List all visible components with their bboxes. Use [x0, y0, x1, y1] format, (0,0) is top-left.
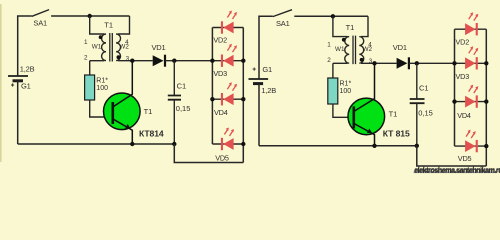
- LED VD2: [221, 11, 237, 34]
- wire rung VD3 (right): [455, 62, 487, 64]
- node: emitter junction: [130, 142, 134, 146]
- LED ladder left rail (right): [454, 29, 456, 146]
- LED VD3 (right): [465, 46, 478, 69]
- node: collector junction (right): [372, 61, 376, 65]
- node: VD4 rung right (right): [484, 99, 488, 103]
- LED ladder right rail: [242, 28, 244, 163]
- svg-text:G1: G1: [21, 82, 31, 91]
- LED VD4: [221, 82, 237, 105]
- svg-text:G1: G1: [262, 65, 272, 74]
- svg-text:T1: T1: [389, 109, 398, 118]
- transformer T1 polarity dot W2: [117, 55, 121, 59]
- svg-text:SA1: SA1: [276, 19, 290, 28]
- LED VD3: [221, 44, 237, 67]
- switch SA1 blade: [32, 10, 49, 17]
- LED VD5: [221, 128, 234, 151]
- transformer T1 core: [110, 33, 113, 62]
- svg-text:VD4: VD4: [214, 108, 228, 117]
- LED ladder right rail (right): [485, 29, 487, 166]
- transistor T1 collector: [114, 61, 133, 107]
- node: C1 top: [172, 59, 176, 63]
- LED ladder left rail: [211, 28, 213, 145]
- battery G1 short plate: [13, 79, 24, 82]
- wire: top rail after switch: [51, 15, 129, 17]
- node: C1 top (right): [415, 61, 419, 65]
- wire rung VD3: [212, 60, 243, 62]
- svg-text:100: 100: [96, 85, 108, 92]
- node: VD4 rung left (right): [452, 99, 456, 103]
- node: VD5 rung right (right): [484, 144, 488, 148]
- wire: pin2 to R1: [89, 61, 91, 75]
- svg-text:R1*: R1*: [340, 81, 352, 88]
- transformer T1 pin2 wire (right): [333, 62, 348, 64]
- transformer T1 pin1 wire: [90, 16, 105, 34]
- svg-text:VD1: VD1: [152, 43, 166, 52]
- wire: C1 bottom lead (right): [416, 104, 418, 146]
- capacitor C1 plates: [168, 96, 181, 100]
- svg-text:1: 1: [84, 39, 88, 46]
- svg-text:elektroshema.santehnikam.ru: elektroshema.santehnikam.ru: [414, 166, 500, 174]
- transformer T1 polarity dot W1: [99, 35, 103, 39]
- node: VD3 rung right: [241, 59, 245, 63]
- svg-text:3: 3: [369, 58, 373, 65]
- node: VD5 rung right: [241, 142, 245, 146]
- svg-text:0,15: 0,15: [176, 104, 191, 113]
- scan border left edge: [0, 4, 2, 162]
- resistor R1 (right): [328, 78, 338, 104]
- wire rung VD2 (right): [455, 28, 487, 30]
- svg-text:2: 2: [327, 57, 331, 64]
- svg-text:VD5: VD5: [458, 154, 472, 163]
- svg-text:T1: T1: [144, 107, 153, 116]
- svg-text:100: 100: [340, 88, 352, 95]
- battery plus sign (right): [253, 68, 256, 71]
- wire: left rail bottom: [17, 81, 19, 144]
- svg-text:1: 1: [327, 42, 331, 49]
- capacitor C1 plates (right): [410, 99, 425, 103]
- wire: bottom rail: [18, 143, 175, 145]
- transistor T1 body (right): [348, 98, 385, 135]
- node: top rail / transformer junction: [88, 14, 92, 18]
- diode VD1 cathode bar: [164, 55, 166, 67]
- transistor T1 body: [104, 93, 141, 130]
- wire: R1 to base (right): [333, 104, 353, 117]
- transistor T1 base bar: [112, 102, 115, 124]
- transformer T1 winding W2 (right): [359, 37, 363, 64]
- transistor T1 emitter (right): [355, 124, 375, 146]
- svg-text:W2: W2: [119, 44, 129, 51]
- battery G1 long plate (right): [249, 78, 269, 80]
- svg-text:C1: C1: [177, 82, 187, 91]
- svg-text:T1: T1: [104, 21, 113, 30]
- transformer T1 polarity dot W2 (right): [360, 58, 364, 62]
- svg-text:1,2В: 1,2В: [20, 65, 35, 74]
- transformer T1 pin2 wire: [90, 60, 105, 62]
- battery G1 short plate (right): [253, 82, 263, 85]
- svg-text:КТ814: КТ814: [139, 128, 164, 138]
- wire rung VD5: [212, 143, 243, 145]
- node: VD4 rung right: [241, 97, 245, 101]
- transformer T1 pin3 wire: [118, 60, 153, 62]
- wire rung VD5 (right): [455, 145, 487, 147]
- wire: pin2 to R1 (right): [332, 63, 334, 78]
- svg-text:C1: C1: [419, 83, 429, 92]
- svg-text:КТ 815: КТ 815: [383, 128, 410, 138]
- node: collector junction: [130, 59, 134, 63]
- LED VD2 (right): [465, 12, 478, 35]
- wire: top rail after switch: [294, 15, 368, 17]
- wire: C1 bottom lead: [173, 100, 175, 144]
- wire: C1 top lead: [173, 61, 175, 95]
- wire: VD1 to LED ladder (right): [409, 62, 455, 64]
- transformer T1 pin4 wire (right): [361, 16, 368, 36]
- battery plus sign: [11, 83, 14, 86]
- LED VD5 (right): [465, 130, 478, 153]
- wire: left rail top + top rail to switch: [18, 16, 32, 76]
- LED VD4 (right): [465, 85, 478, 108]
- wire: bottom rail (right): [259, 145, 417, 147]
- watermark: [414, 172, 497, 174]
- battery G1 long plate: [8, 75, 28, 77]
- transformer T1 pin4 wire: [118, 16, 130, 34]
- svg-text:VD2: VD2: [456, 37, 470, 46]
- svg-text:3: 3: [126, 55, 130, 62]
- svg-text:SA1: SA1: [33, 19, 47, 28]
- wire: R1 to base: [90, 100, 112, 117]
- svg-text:VD3: VD3: [213, 69, 227, 78]
- transformer T1 pin1 wire (right): [333, 16, 348, 36]
- wire rung VD4: [212, 98, 243, 100]
- node: VD3 rung right (right): [484, 61, 488, 65]
- node: bottom rail C1 junction (right): [415, 144, 419, 148]
- svg-text:W2: W2: [363, 46, 373, 53]
- resistor R1: [85, 75, 95, 100]
- node: emitter junction (right): [372, 144, 376, 148]
- svg-text:0,15: 0,15: [418, 108, 433, 117]
- svg-text:T1: T1: [346, 23, 355, 32]
- transformer T1 winding W1 (right): [345, 37, 349, 64]
- wire: left rail top + top rail to switch: [259, 16, 273, 79]
- svg-text:W1: W1: [335, 46, 345, 53]
- node: top rail / transformer junction (right): [331, 14, 335, 18]
- svg-text:VD1: VD1: [393, 43, 407, 52]
- transistor T1 emitter arrow: [125, 124, 130, 128]
- svg-text:W1: W1: [92, 44, 102, 51]
- svg-text:VD4: VD4: [457, 111, 471, 120]
- transformer T1 winding W2: [116, 34, 120, 61]
- transistor T1 emitter arrow (right): [367, 129, 372, 134]
- wire: bottom jog around VD5 (right): [417, 146, 487, 166]
- transformer T1 pin3 wire (right): [361, 62, 397, 64]
- node: bottom rail C1 junction: [172, 142, 176, 146]
- node: VD4 rung left: [210, 97, 214, 101]
- svg-text:2: 2: [84, 54, 88, 61]
- transistor T1 base bar (right): [352, 106, 355, 128]
- wire: left rail bottom (right): [258, 84, 260, 146]
- node: VD3 rung left (right): [452, 61, 456, 65]
- node: VD3 rung left: [210, 59, 214, 63]
- svg-text:VD3: VD3: [456, 72, 470, 81]
- transistor T1 collector (right): [355, 63, 375, 111]
- svg-text:VD5: VD5: [215, 153, 229, 162]
- wire: VD1 to LED ladder: [165, 60, 212, 62]
- svg-text:R1*: R1*: [96, 77, 108, 84]
- wire: bottom jog around VD5: [174, 144, 243, 163]
- transistor T1 emitter: [114, 119, 133, 144]
- diode VD1 cathode bar (right): [408, 57, 410, 69]
- transformer T1 winding W1: [102, 34, 106, 61]
- transformer T1 core (right): [353, 36, 356, 65]
- diode VD1 (right): [397, 58, 408, 69]
- svg-text:1,2В: 1,2В: [261, 86, 276, 95]
- wire: C1 top lead (right): [416, 63, 418, 98]
- transformer T1 polarity dot W1 (right): [342, 38, 346, 42]
- switch SA1 blade (right): [273, 10, 292, 17]
- diode VD1: [153, 55, 164, 66]
- wire rung VD2: [212, 27, 243, 29]
- wire rung VD4 (right): [455, 101, 487, 103]
- svg-text:VD2: VD2: [213, 36, 227, 45]
